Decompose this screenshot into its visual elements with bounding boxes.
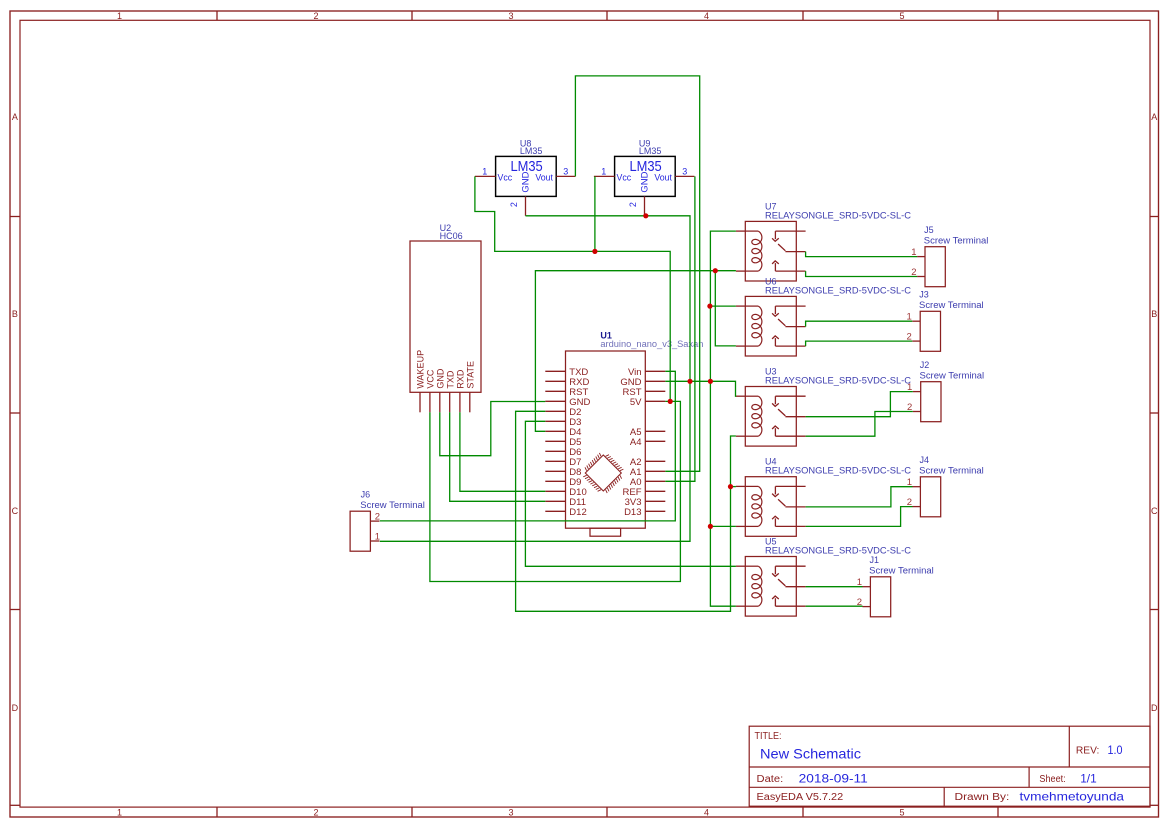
svg-text:Vout: Vout	[535, 172, 553, 182]
svg-text:New Schematic: New Schematic	[760, 746, 861, 762]
svg-text:3: 3	[563, 167, 568, 177]
svg-text:Vcc: Vcc	[617, 172, 632, 182]
svg-text:Vcc: Vcc	[498, 172, 513, 182]
svg-text:C: C	[1151, 506, 1158, 516]
svg-text:Sheet:: Sheet:	[1039, 774, 1065, 785]
svg-text:D13: D13	[624, 507, 641, 518]
svg-text:EasyEDA V5.7.22: EasyEDA V5.7.22	[757, 792, 844, 803]
svg-text:A: A	[12, 112, 18, 122]
svg-text:2018-09-11: 2018-09-11	[799, 772, 868, 786]
svg-text:1: 1	[117, 808, 122, 818]
svg-text:5: 5	[899, 11, 904, 21]
svg-text:arduino_nano_v3_Saxan: arduino_nano_v3_Saxan	[600, 339, 703, 349]
svg-text:1: 1	[117, 11, 122, 21]
svg-text:J5: J5	[924, 225, 934, 235]
svg-text:Screw Terminal: Screw Terminal	[920, 370, 985, 380]
svg-text:D: D	[12, 703, 19, 713]
svg-text:2: 2	[375, 512, 380, 523]
svg-text:Date:: Date:	[757, 774, 784, 785]
svg-text:RXD: RXD	[456, 369, 466, 389]
svg-text:3: 3	[682, 167, 687, 177]
svg-text:D: D	[1151, 703, 1158, 713]
svg-text:3: 3	[508, 808, 513, 818]
svg-text:5V: 5V	[630, 397, 642, 408]
svg-text:2: 2	[628, 202, 638, 207]
svg-text:J3: J3	[919, 290, 929, 300]
svg-text:Vout: Vout	[654, 172, 672, 182]
svg-text:J4: J4	[920, 455, 930, 465]
svg-text:2: 2	[313, 808, 318, 818]
svg-text:J1: J1	[870, 555, 880, 565]
svg-text:2: 2	[509, 202, 519, 207]
svg-text:WAKEUP: WAKEUP	[416, 350, 426, 389]
svg-text:LM35: LM35	[639, 146, 662, 156]
svg-text:Screw Terminal: Screw Terminal	[919, 465, 984, 475]
svg-text:B: B	[1151, 309, 1157, 319]
svg-text:A4: A4	[630, 437, 642, 448]
svg-text:TXD: TXD	[445, 370, 455, 389]
svg-text:TITLE:: TITLE:	[755, 731, 782, 742]
svg-text:HC06: HC06	[440, 231, 463, 241]
svg-text:2: 2	[313, 11, 318, 21]
svg-text:VCC: VCC	[426, 369, 436, 389]
svg-text:1/1: 1/1	[1080, 772, 1097, 786]
svg-text:Screw Terminal: Screw Terminal	[869, 565, 934, 575]
svg-text:GND: GND	[521, 171, 532, 192]
svg-text:D12: D12	[569, 507, 586, 518]
svg-text:STATE: STATE	[465, 361, 475, 389]
svg-text:1: 1	[375, 532, 380, 543]
svg-text:RELAYSONGLE_SRD-5VDC-SL-C: RELAYSONGLE_SRD-5VDC-SL-C	[765, 545, 911, 555]
svg-text:4: 4	[704, 11, 709, 21]
svg-text:J6: J6	[361, 490, 371, 500]
svg-text:4: 4	[704, 808, 709, 818]
svg-text:J2: J2	[920, 360, 930, 370]
svg-text:LM35: LM35	[520, 146, 543, 156]
svg-text:Screw Terminal: Screw Terminal	[919, 300, 984, 310]
svg-text:REV:: REV:	[1076, 746, 1100, 757]
svg-text:RELAYSONGLE_SRD-5VDC-SL-C: RELAYSONGLE_SRD-5VDC-SL-C	[765, 466, 911, 476]
svg-text:1: 1	[482, 167, 487, 177]
svg-text:RELAYSONGLE_SRD-5VDC-SL-C: RELAYSONGLE_SRD-5VDC-SL-C	[765, 210, 911, 220]
svg-text:GND: GND	[640, 171, 651, 192]
svg-text:5: 5	[899, 808, 904, 818]
svg-text:GND: GND	[435, 368, 445, 389]
svg-text:3: 3	[508, 11, 513, 21]
svg-text:RELAYSONGLE_SRD-5VDC-SL-C: RELAYSONGLE_SRD-5VDC-SL-C	[765, 285, 911, 295]
svg-text:C: C	[12, 506, 19, 516]
svg-text:Drawn By:: Drawn By:	[955, 792, 1010, 803]
svg-text:RELAYSONGLE_SRD-5VDC-SL-C: RELAYSONGLE_SRD-5VDC-SL-C	[765, 375, 911, 385]
svg-text:tvmehmetoyunda: tvmehmetoyunda	[1020, 790, 1125, 804]
svg-text:Screw Terminal: Screw Terminal	[360, 500, 425, 510]
svg-text:B: B	[12, 309, 18, 319]
svg-text:Screw Terminal: Screw Terminal	[924, 235, 989, 245]
svg-text:A: A	[1151, 112, 1157, 122]
svg-text:1: 1	[601, 167, 606, 177]
svg-text:1.0: 1.0	[1108, 743, 1123, 757]
